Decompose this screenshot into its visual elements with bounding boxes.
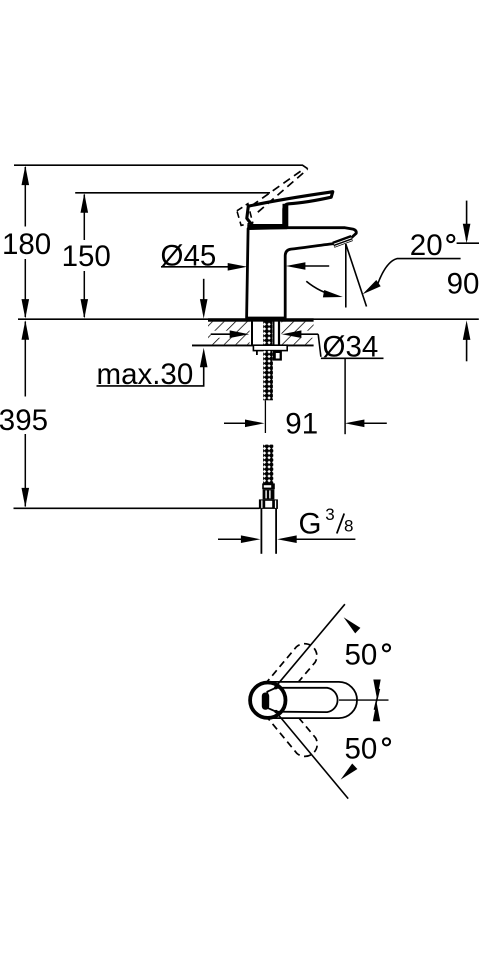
lower 50 arc arrow bbox=[341, 764, 358, 780]
aerator bbox=[333, 238, 352, 247]
svg-text:50: 50 bbox=[345, 639, 378, 672]
hose ferrule bbox=[262, 483, 275, 489]
center angle arrows bbox=[373, 680, 380, 699]
counter cross-section left hatch bbox=[208, 322, 250, 345]
lever base raised (dashed) bbox=[237, 204, 253, 226]
hose fitting block bbox=[263, 489, 275, 499]
plan centerline bbox=[339, 699, 389, 701]
lever (solid) bbox=[247, 192, 333, 226]
dimension 395 bbox=[0, 320, 48, 507]
handle rotated up 50 (dashed) bbox=[258, 639, 322, 708]
150 extension line bbox=[75, 192, 270, 194]
body circle (plan, thick) bbox=[250, 683, 285, 718]
top reference line bbox=[14, 165, 308, 169]
dimension 90 bbox=[447, 201, 480, 362]
mounting nut left tick bbox=[256, 351, 258, 355]
handle rotated down 50 (dashed) bbox=[258, 692, 322, 761]
upper 50 arc arrow bbox=[344, 617, 361, 633]
cartridge blob bbox=[262, 693, 269, 710]
svg-text:91: 91 bbox=[285, 408, 318, 441]
svg-text:150: 150 bbox=[62, 240, 111, 273]
hose nut bbox=[259, 499, 278, 509]
svg-text:8: 8 bbox=[344, 517, 353, 536]
G3/8 tail pipe bbox=[261, 509, 276, 554]
svg-text:Ø34: Ø34 bbox=[323, 331, 379, 364]
dimension max.30 bbox=[97, 279, 208, 391]
counter underside line bbox=[192, 345, 314, 347]
counter line bbox=[18, 318, 479, 320]
shank through counter bbox=[250, 322, 282, 346]
label 20 deg leader bbox=[378, 259, 461, 285]
mounting nut right lug bbox=[273, 351, 282, 361]
svg-text:3: 3 bbox=[325, 505, 334, 524]
body base band bbox=[246, 318, 286, 322]
dimension G 3/8 bbox=[218, 505, 355, 543]
counter cross-section right hatch bbox=[281, 322, 313, 345]
svg-text:max.30: max.30 bbox=[97, 358, 194, 391]
angle arc with arrow bbox=[306, 281, 337, 296]
svg-text:180: 180 bbox=[2, 228, 51, 261]
flexible hose lower segment bbox=[263, 445, 273, 484]
bottom reference line bbox=[14, 507, 260, 509]
svg-text:50: 50 bbox=[345, 733, 378, 766]
svg-text:395: 395 bbox=[0, 404, 48, 437]
lever neck bbox=[283, 204, 289, 227]
svg-text:90: 90 bbox=[447, 267, 480, 300]
handle outline (plan) bbox=[267, 688, 337, 712]
lever base band bbox=[247, 224, 287, 229]
counter section top thick line bbox=[208, 318, 314, 321]
mounting washer bbox=[253, 345, 287, 350]
dimension 150 bbox=[62, 193, 111, 318]
upper 50 deg diagonal bbox=[274, 604, 345, 688]
lever raised (dashed) bbox=[252, 169, 308, 213]
svg-text:Ø45: Ø45 bbox=[161, 240, 217, 273]
lower 50 deg diagonal bbox=[275, 711, 348, 798]
outer outline (plan) bbox=[250, 682, 357, 718]
20 degree stream line bbox=[346, 244, 367, 307]
arc tick through centerline bbox=[374, 689, 379, 710]
threaded shank below counter bbox=[263, 351, 273, 401]
dimension 91 bbox=[224, 359, 387, 441]
dimension 180 bbox=[2, 166, 51, 319]
dimension D34 bbox=[211, 330, 384, 363]
dimension D45 bbox=[161, 240, 330, 273]
pivot dots bbox=[274, 686, 277, 689]
spout vertical reference line bbox=[345, 244, 347, 308]
hose centerline bbox=[264, 400, 266, 433]
svg-text:G: G bbox=[299, 508, 322, 541]
faucet body and spout bbox=[247, 228, 357, 318]
svg-text:20: 20 bbox=[410, 229, 443, 262]
